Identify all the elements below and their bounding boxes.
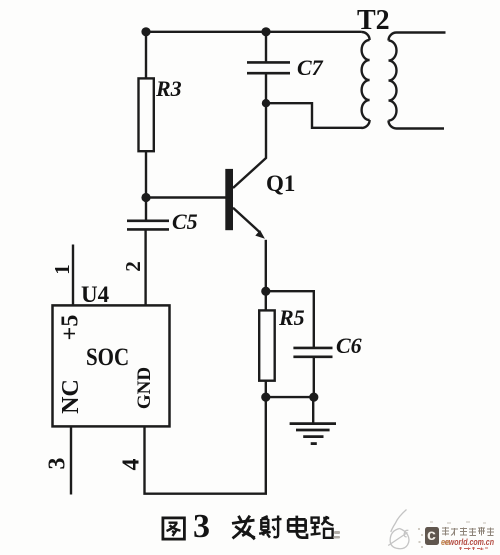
svg-text:ee: ee — [441, 537, 450, 547]
